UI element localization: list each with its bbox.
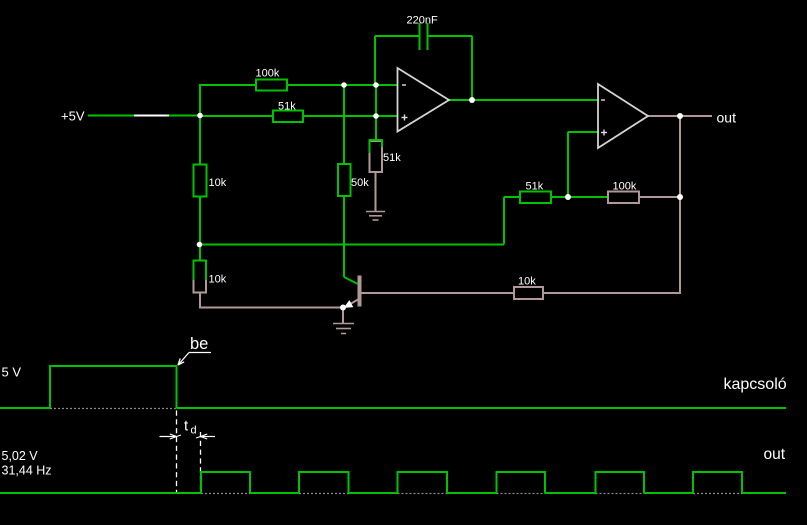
wire Q1 collector to R9 left [361, 292, 514, 294]
svg-text:10k: 10k [209, 177, 227, 189]
dimension arrow right [196, 434, 215, 439]
resistor R1 100k body [256, 80, 287, 91]
svg-text:5,02 V: 5,02 V [2, 449, 39, 463]
node junction x376 top wire [373, 82, 379, 88]
wire vertical x504 [503, 197, 505, 244]
svg-text:5 V: 5 V [2, 365, 22, 380]
svg-text:10k: 10k [518, 276, 536, 288]
dashed line at delayed rising edge [200, 432, 202, 492]
svg-text:51k: 51k [526, 181, 544, 193]
svg-text:kapcsoló: kapcsoló [724, 376, 787, 393]
node junction emitter [340, 305, 346, 311]
ground GND1 under R5 [366, 212, 385, 221]
svg-text:10k: 10k [209, 274, 227, 286]
wire vertical x200 top [199, 84, 201, 164]
label t_d [184, 418, 197, 437]
node junction +5V/x200 [197, 113, 203, 119]
wire feedback loop left vertical [374, 36, 376, 85]
resistor R2 51k body [273, 111, 303, 123]
wire vertical x376 between nodes [375, 85, 377, 116]
wire R5 bottom to ground [375, 172, 377, 212]
wire U2 noninverting input horizontal [568, 131, 598, 133]
wire +5V feed [88, 115, 200, 117]
label be with leader arrow [178, 335, 211, 365]
svg-text:51k: 51k [278, 101, 296, 113]
waveform kapcsolo baseline right [177, 407, 787, 409]
svg-text:+5V: +5V [61, 109, 85, 124]
wire vertical x200 below R6 [199, 292, 201, 308]
wire vertical x376 to R5 top [375, 116, 377, 141]
svg-text:50k: 50k [351, 177, 369, 189]
resistor R7 51k body [520, 192, 551, 204]
dashed line at falling edge [176, 411, 178, 493]
switch white segment on +5V wire [134, 115, 169, 117]
waveform out baseline segments [0, 492, 786, 494]
node junction U2 output [677, 113, 683, 119]
node junction divider x568 [565, 194, 571, 200]
svg-text:100k: 100k [256, 68, 280, 80]
wire R7 right to divider node to R8 [551, 196, 608, 198]
ground GND2 under Q1 emitter [333, 324, 354, 334]
wire vertical x344 R4 bottom to Q1 base [343, 196, 345, 277]
dimension arrow left [160, 434, 182, 439]
resistor R6 10k body [193, 261, 208, 294]
wire long horizontal y244 [199, 244, 504, 246]
waveform kapcsolo baseline left [0, 407, 50, 409]
wire R2 right to U1 noninverting input [303, 115, 398, 117]
wire vertical x344 to R4 top [343, 85, 345, 164]
svg-text:out: out [764, 446, 786, 463]
waveform out gray axis under pulses [201, 493, 742, 495]
wire C1 to right corner [427, 35, 472, 37]
resistor R5 51k body [369, 140, 384, 172]
node junction x344 top wire [341, 82, 347, 88]
op-amp U2 [598, 84, 648, 148]
wire output column vertical x680 [679, 116, 681, 294]
capacitor C1 220nF plates [420, 23, 428, 50]
resistor R4 50k body [338, 164, 351, 196]
node junction U1 output [469, 97, 475, 103]
wire y307 to emitter node [199, 307, 343, 309]
svg-text:d: d [191, 425, 197, 437]
waveform kapcsolo gray axis under pulse [50, 408, 177, 410]
transistor Q1 [344, 276, 362, 309]
wire vertical x568 down to divider node [567, 132, 569, 197]
wire to R1 left [199, 84, 256, 86]
node junction x376 mid wire [373, 113, 379, 119]
wire feedback top left to C1 [375, 35, 420, 37]
wire emitter node down to ground [342, 308, 344, 325]
waveform kapcsolo pulse [50, 366, 177, 408]
resistor R9 10k body [514, 287, 543, 299]
svg-text:51k: 51k [383, 152, 401, 164]
svg-text:220nF: 220nF [407, 15, 438, 27]
wire vertical x200 middle [199, 196, 201, 261]
svg-text:out: out [717, 110, 737, 126]
wire U2 output to out label [647, 115, 712, 117]
svg-text:be: be [190, 335, 208, 353]
wire feedback right vertical [471, 36, 473, 100]
resistor R3 10k body [194, 165, 207, 197]
waveform out pulses [201, 472, 742, 493]
svg-text:31,44 Hz: 31,44 Hz [2, 464, 52, 478]
wire y293 R9 right to output column [543, 292, 681, 294]
wire U1 output to U2 inverting input [448, 99, 598, 101]
wire R8 right to output column [639, 196, 680, 198]
wire R1 right to U1 inverting input [287, 84, 398, 86]
node junction x200 y244 [197, 242, 203, 248]
wire y197 left stub to R7 [504, 196, 520, 198]
svg-text:100k: 100k [613, 181, 637, 193]
resistor R8 100k body [608, 192, 639, 204]
wire node to R2 left [200, 115, 273, 117]
node junction x680 y197 [677, 194, 683, 200]
op-amp U1 [398, 68, 450, 132]
